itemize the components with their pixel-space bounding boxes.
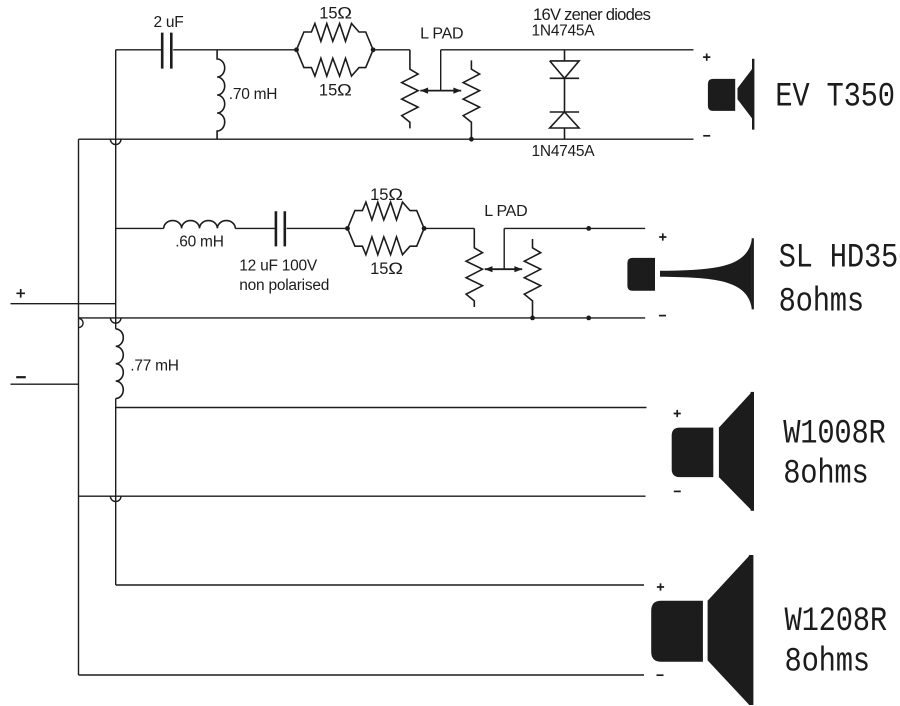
svg-text:W1208R: W1208R: [785, 602, 888, 641]
inductor L3 .77 mH on plus bus: [116, 329, 124, 399]
wire row2 top from plus bus: [116, 227, 164, 229]
wiper arrow VR3-VR4 row2: [485, 268, 523, 270]
node C junction: [345, 226, 350, 231]
svg-text:1N4745A: 1N4745A: [532, 23, 596, 40]
speaker LS2 SL HD350 horn: [627, 238, 752, 309]
svg-text:15: 15: [319, 81, 337, 99]
svg-text:Ω: Ω: [388, 259, 403, 277]
wire row1 wiper riser: [440, 50, 442, 91]
row2 speaker plus mark: [659, 233, 666, 240]
svg-text:Ω: Ω: [388, 186, 403, 204]
svg-text:8ohms: 8ohms: [785, 642, 870, 681]
svg-text:15: 15: [370, 186, 388, 204]
capacitor C1 2 uF: [162, 33, 171, 69]
row2 speaker minus mark: [659, 315, 666, 317]
potentiometer VR1 L pad series: [402, 50, 418, 129]
wire hop row1 bottom over plus bus: [110, 139, 121, 144]
speaker LS1 EV T350 tweeter: [708, 59, 753, 130]
input minus terminal mark: [16, 376, 26, 378]
row3 speaker plus mark: [674, 410, 681, 417]
node D junction: [422, 226, 427, 231]
wire row3 bottom: [79, 495, 646, 497]
wire plus bus vertical lower: [115, 399, 117, 586]
junction VR2 bottom: [469, 137, 474, 142]
wire L2 to C2: [235, 227, 275, 229]
row4 speaker minus mark: [657, 674, 664, 676]
svg-text:L PAD: L PAD: [484, 203, 527, 220]
resistor R2 15 ohm lower: [297, 50, 374, 76]
wire row2 top to speaker: [504, 227, 645, 229]
input plus terminal mark: [16, 289, 25, 298]
svg-text:.60 mH: .60 mH: [175, 234, 223, 251]
svg-text:1N4745A: 1N4745A: [532, 143, 596, 160]
speaker LS3 W1008R woofer: [672, 392, 754, 511]
svg-text:15: 15: [370, 260, 388, 278]
svg-text:.77 mH: .77 mH: [130, 357, 178, 374]
potentiometer VR4 L pad shunt: [524, 239, 540, 318]
wire row1 top to speaker: [441, 49, 694, 51]
wire input plus: [11, 303, 116, 305]
resistor R3 15 ohm upper: [348, 202, 425, 228]
resistor R1 15 ohm upper: [297, 24, 374, 50]
svg-text:Ω: Ω: [337, 81, 352, 99]
wire node B to VR1: [373, 49, 410, 51]
speaker LS4 W1208R woofer: [651, 555, 753, 705]
label R3 value 15 ohm: [370, 186, 403, 204]
wire hop row3 bottom over plus bus: [110, 496, 121, 501]
svg-text:16V zener diodes: 16V zener diodes: [533, 5, 651, 24]
wire hop row2 bottom over plus bus: [110, 318, 121, 323]
capacitor C2 12 uF: [276, 211, 285, 246]
row3 speaker minus mark: [674, 490, 681, 492]
row4 speaker plus mark: [657, 583, 664, 590]
svg-text:non polarised: non polarised: [239, 277, 329, 294]
wire row2 bottom: [79, 317, 646, 319]
svg-text:W1008R: W1008R: [783, 414, 886, 453]
svg-text:8ohms: 8ohms: [783, 454, 868, 493]
potentiometer VR2 L pad shunt: [463, 60, 479, 139]
wire node D to VR3: [424, 227, 474, 229]
junction VR4 bottom: [530, 316, 535, 321]
label R2 value 15 ohm: [319, 81, 352, 99]
svg-text:EV T350: EV T350: [775, 77, 894, 116]
node A junction: [294, 47, 299, 52]
row1 speaker minus mark: [703, 135, 710, 137]
junction row2 bottom terminal: [586, 316, 591, 321]
svg-text:SL HD350: SL HD350: [779, 238, 900, 277]
potentiometer VR3 L pad series: [466, 228, 482, 307]
svg-text:12 uF 100V: 12 uF 100V: [239, 258, 318, 275]
node B junction: [371, 47, 376, 52]
label R1 value 15 ohm: [319, 4, 352, 22]
zener diode D1: [550, 50, 579, 79]
wire row1 bottom: [79, 138, 694, 140]
inductor L2 .60 mH series: [164, 221, 236, 229]
zener diode D2: [550, 78, 579, 139]
wire hop on minus bus below row2 return: [79, 318, 84, 327]
wire row4 top: [116, 584, 644, 586]
wiper arrow VR1-VR2 row1: [420, 90, 461, 92]
wire C2 to node C: [287, 227, 348, 229]
wire row1 top from plus bus to C1: [116, 49, 162, 51]
label R4 value 15 ohm: [370, 259, 403, 277]
wire minus bus vertical: [78, 139, 80, 675]
wire plus bus vertical upper: [115, 50, 117, 329]
svg-text:15: 15: [319, 5, 337, 23]
svg-text:8ohms: 8ohms: [779, 282, 864, 321]
wire row2 wiper riser: [503, 228, 505, 269]
svg-text:Ω: Ω: [337, 4, 352, 22]
resistor R4 15 ohm lower: [348, 228, 425, 254]
svg-text:2 uF: 2 uF: [154, 14, 184, 31]
inductor L1 .70 mH shunt: [217, 50, 225, 139]
row1 speaker plus mark: [703, 54, 710, 61]
wire row4 bottom: [79, 674, 645, 676]
wire C1 to node A: [173, 49, 296, 51]
junction row2 top terminal: [586, 226, 591, 231]
svg-text:L PAD: L PAD: [420, 25, 463, 42]
wire input minus: [11, 383, 79, 385]
svg-text:.70 mH: .70 mH: [229, 86, 277, 103]
wire row3 top: [116, 407, 647, 409]
